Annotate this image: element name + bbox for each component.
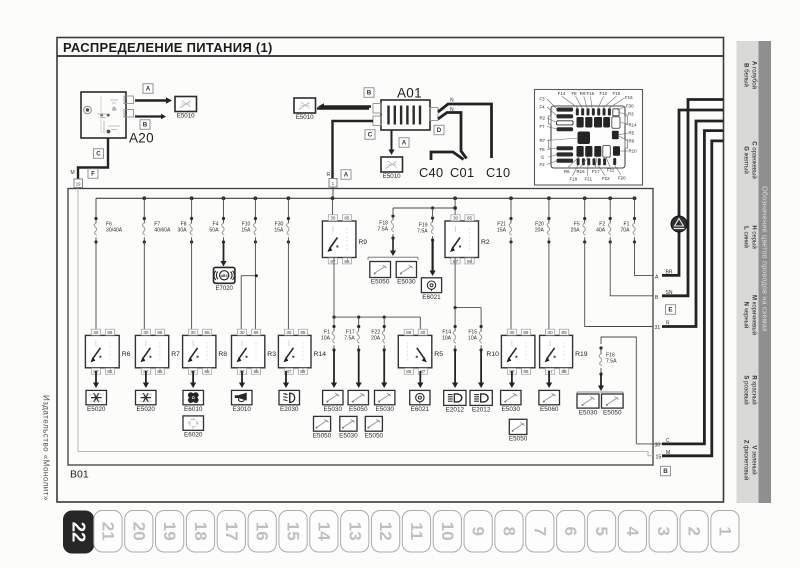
svg-text:22: 22 — [69, 522, 90, 543]
svg-text:A: A — [344, 172, 349, 179]
svg-text:R2: R2 — [540, 116, 546, 121]
svg-text:20: 20 — [129, 522, 148, 541]
svg-text:H серый: H серый — [751, 225, 758, 248]
svg-text:V зеленый: V зеленый — [751, 445, 758, 474]
svg-text:R красный: R красный — [751, 375, 758, 404]
svg-text:15A: 15A — [497, 228, 507, 234]
svg-text:F18: F18 — [570, 177, 578, 182]
svg-text:10A: 10A — [468, 336, 478, 342]
svg-text:R8: R8 — [580, 91, 586, 96]
svg-text:C10: C10 — [486, 165, 510, 180]
svg-text:R5: R5 — [629, 131, 635, 136]
svg-text:13: 13 — [345, 522, 364, 541]
svg-text:F15: F15 — [587, 91, 595, 96]
svg-text:30: 30 — [286, 330, 292, 335]
svg-text:21: 21 — [98, 522, 117, 541]
svg-text:30: 30 — [191, 330, 197, 335]
svg-text:86: 86 — [205, 330, 211, 335]
svg-text:12: 12 — [376, 522, 395, 541]
svg-text:B01: B01 — [70, 469, 89, 481]
svg-text:E5060: E5060 — [540, 406, 559, 413]
svg-text:C: C — [96, 151, 101, 158]
svg-text:E5050: E5050 — [603, 409, 622, 416]
svg-text:A: A — [655, 275, 659, 281]
svg-text:Издательство «Монолит»: Издательство «Монолит» — [42, 395, 51, 501]
svg-text:Z фиолетовый: Z фиолетовый — [743, 440, 750, 480]
svg-text:F4: F4 — [540, 105, 546, 110]
svg-text:E5030: E5030 — [324, 406, 343, 413]
svg-text:R9: R9 — [629, 139, 635, 144]
svg-text:30: 30 — [239, 330, 245, 335]
svg-text:3: 3 — [654, 527, 673, 536]
svg-text:R6: R6 — [122, 351, 131, 358]
svg-text:87: 87 — [330, 259, 336, 264]
svg-text:R19: R19 — [575, 351, 588, 358]
svg-text:86: 86 — [523, 369, 529, 374]
svg-text:15: 15 — [656, 455, 662, 461]
svg-text:F14: F14 — [558, 91, 566, 96]
svg-text:E6021: E6021 — [422, 294, 441, 301]
svg-text:C: C — [368, 132, 373, 139]
svg-text:C01: C01 — [450, 165, 474, 180]
svg-text:30/40A: 30/40A — [106, 228, 123, 234]
svg-text:85: 85 — [406, 369, 412, 374]
svg-text:ABS: ABS — [221, 274, 229, 278]
svg-text:30: 30 — [330, 216, 336, 221]
svg-text:R14: R14 — [629, 123, 638, 128]
svg-text:R3: R3 — [628, 112, 634, 117]
svg-text:N: N — [450, 98, 454, 104]
svg-text:R16: R16 — [577, 169, 586, 174]
svg-text:19: 19 — [76, 181, 81, 186]
svg-text:R: R — [327, 172, 331, 178]
svg-text:19: 19 — [160, 522, 179, 541]
svg-text:A20: A20 — [129, 131, 154, 146]
svg-text:R8: R8 — [218, 351, 227, 358]
svg-text:50A: 50A — [209, 228, 219, 234]
svg-text:E5030: E5030 — [579, 409, 598, 416]
svg-text:F2: F2 — [540, 162, 546, 167]
svg-text:F22: F22 — [602, 176, 610, 181]
svg-text:R7: R7 — [540, 138, 546, 143]
svg-text:F3: F3 — [540, 97, 546, 102]
svg-text:E5010: E5010 — [383, 173, 401, 180]
svg-text:A: A — [146, 86, 151, 93]
svg-text:E5050: E5050 — [313, 432, 332, 439]
svg-text:M: M — [71, 170, 75, 176]
svg-text:R7: R7 — [171, 351, 180, 358]
svg-text:E5020: E5020 — [87, 406, 106, 413]
svg-text:F20: F20 — [618, 176, 626, 181]
svg-text:85: 85 — [344, 216, 350, 221]
svg-text:17: 17 — [222, 522, 241, 541]
svg-text:R5: R5 — [434, 351, 443, 358]
svg-text:6: 6 — [561, 527, 580, 536]
svg-text:R6: R6 — [564, 169, 570, 174]
svg-text:7.5A: 7.5A — [606, 359, 617, 365]
svg-text:E2030: E2030 — [280, 406, 299, 413]
svg-text:E6010: E6010 — [184, 406, 203, 413]
svg-text:85: 85 — [157, 330, 163, 335]
svg-text:E5050: E5050 — [371, 279, 390, 286]
svg-text:4: 4 — [623, 527, 642, 537]
svg-text:85: 85 — [562, 330, 568, 335]
svg-text:E5030: E5030 — [339, 432, 358, 439]
svg-text:R10: R10 — [486, 351, 499, 358]
svg-text:16: 16 — [253, 522, 272, 541]
svg-text:85: 85 — [107, 330, 113, 335]
svg-text:E5030: E5030 — [397, 279, 416, 286]
svg-text:86: 86 — [253, 330, 259, 335]
svg-text:30: 30 — [143, 330, 149, 335]
svg-text:F7: F7 — [540, 124, 546, 129]
svg-text:E: E — [668, 307, 672, 314]
svg-text:L синий: L синий — [743, 226, 750, 248]
svg-text:F8: F8 — [572, 91, 578, 96]
svg-text:E5050: E5050 — [349, 406, 368, 413]
svg-text:B: B — [663, 468, 668, 475]
svg-text:F21: F21 — [585, 177, 593, 182]
svg-text:E5020: E5020 — [137, 406, 156, 413]
svg-text:N черный: N черный — [743, 302, 750, 329]
svg-text:R2: R2 — [481, 239, 490, 246]
svg-text:86: 86 — [406, 330, 412, 335]
svg-text:E5050: E5050 — [509, 436, 528, 443]
svg-text:R9: R9 — [358, 239, 367, 246]
svg-text:20A: 20A — [571, 228, 581, 234]
svg-text:15: 15 — [284, 522, 303, 541]
svg-text:Обозначение цветов проводов на: Обозначение цветов проводов на схемах — [760, 186, 768, 332]
svg-text:A: A — [402, 140, 407, 147]
svg-text:S розовый: S розовый — [743, 375, 750, 404]
svg-text:E5010: E5010 — [177, 113, 195, 120]
svg-text:20A: 20A — [371, 336, 381, 342]
svg-text:E5030: E5030 — [375, 406, 394, 413]
svg-text:A голубой: A голубой — [751, 61, 758, 89]
svg-text:B: B — [367, 90, 372, 97]
svg-text:F10: F10 — [600, 91, 608, 96]
svg-text:30: 30 — [453, 216, 459, 221]
svg-text:85: 85 — [523, 330, 529, 335]
svg-text:70A: 70A — [620, 228, 630, 234]
svg-text:10: 10 — [438, 522, 457, 541]
svg-text:E5030: E5030 — [502, 406, 521, 413]
svg-text:8: 8 — [500, 527, 519, 536]
svg-text:F: F — [91, 171, 95, 178]
svg-text:11: 11 — [407, 522, 426, 540]
svg-text:31: 31 — [655, 325, 661, 331]
svg-text:F11: F11 — [607, 168, 615, 173]
svg-text:40/60A: 40/60A — [154, 228, 171, 234]
svg-text:7.5A: 7.5A — [344, 336, 355, 342]
svg-text:E6021: E6021 — [411, 406, 430, 413]
svg-text:R10: R10 — [629, 149, 638, 154]
svg-text:F19: F19 — [613, 91, 621, 96]
svg-text:B: B — [655, 295, 659, 301]
svg-text:B белый: B белый — [743, 63, 750, 87]
svg-text:R14: R14 — [314, 351, 327, 358]
svg-text:30: 30 — [655, 443, 661, 449]
svg-text:10A: 10A — [321, 336, 331, 342]
svg-text:18: 18 — [191, 522, 210, 541]
svg-text:N: N — [450, 107, 454, 113]
svg-text:I1: I1 — [541, 155, 545, 160]
svg-text:10A: 10A — [442, 336, 452, 342]
svg-text:30: 30 — [548, 330, 554, 335]
svg-text:E7020: E7020 — [216, 286, 234, 292]
svg-text:87: 87 — [286, 369, 292, 374]
svg-text:B: B — [143, 122, 148, 129]
svg-text:30A: 30A — [178, 228, 188, 234]
svg-text:1: 1 — [715, 527, 734, 536]
svg-text:E6020: E6020 — [184, 432, 203, 439]
svg-text:30: 30 — [509, 330, 515, 335]
svg-text:15A: 15A — [274, 228, 284, 234]
svg-text:A01: A01 — [397, 86, 422, 101]
svg-text:14: 14 — [314, 522, 333, 541]
svg-text:15A: 15A — [241, 228, 251, 234]
svg-text:F16: F16 — [625, 95, 633, 100]
svg-text:85: 85 — [300, 330, 306, 335]
svg-text:7.5A: 7.5A — [378, 227, 389, 233]
svg-text:D: D — [437, 127, 442, 134]
svg-text:2: 2 — [685, 527, 704, 536]
svg-text:РАСПРЕДЕЛЕНИЕ ПИТАНИЯ (1): РАСПРЕДЕЛЕНИЕ ПИТАНИЯ (1) — [63, 40, 273, 55]
svg-text:9: 9 — [469, 527, 488, 536]
svg-text:E2012: E2012 — [472, 407, 491, 414]
svg-text:5: 5 — [592, 527, 611, 536]
svg-text:87: 87 — [453, 259, 459, 264]
svg-text:20A: 20A — [535, 228, 545, 234]
svg-text:F30: F30 — [626, 104, 634, 109]
svg-text:C40: C40 — [419, 165, 443, 180]
svg-text:7.5A: 7.5A — [417, 229, 428, 235]
svg-text:E5010: E5010 — [296, 114, 314, 121]
svg-text:30: 30 — [420, 330, 426, 335]
svg-text:7: 7 — [530, 527, 549, 536]
svg-text:F17: F17 — [592, 169, 600, 174]
svg-text:E2012: E2012 — [446, 407, 465, 414]
svg-text:E5050: E5050 — [365, 432, 384, 439]
svg-text:G желтый: G желтый — [743, 146, 750, 173]
svg-text:40A: 40A — [596, 228, 606, 234]
svg-text:C оранжевый: C оранжевый — [751, 141, 758, 179]
svg-text:M коричневый: M коричневый — [751, 295, 758, 335]
svg-text:F6: F6 — [540, 147, 546, 152]
svg-text:85: 85 — [467, 216, 473, 221]
svg-text:30: 30 — [93, 330, 99, 335]
svg-text:R3: R3 — [267, 351, 276, 358]
svg-text:E3010: E3010 — [233, 406, 252, 413]
